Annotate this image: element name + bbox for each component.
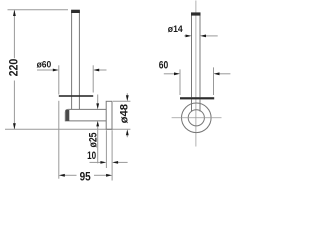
svg-text:ø14: ø14 [168, 24, 184, 35]
svg-text:95: 95 [80, 171, 92, 183]
svg-text:10: 10 [87, 150, 96, 162]
svg-text:ø60: ø60 [37, 59, 52, 70]
svg-text:220: 220 [9, 59, 21, 77]
svg-text:ø48: ø48 [119, 104, 131, 123]
svg-text:ø25: ø25 [88, 133, 100, 148]
svg-text:60: 60 [159, 59, 169, 71]
